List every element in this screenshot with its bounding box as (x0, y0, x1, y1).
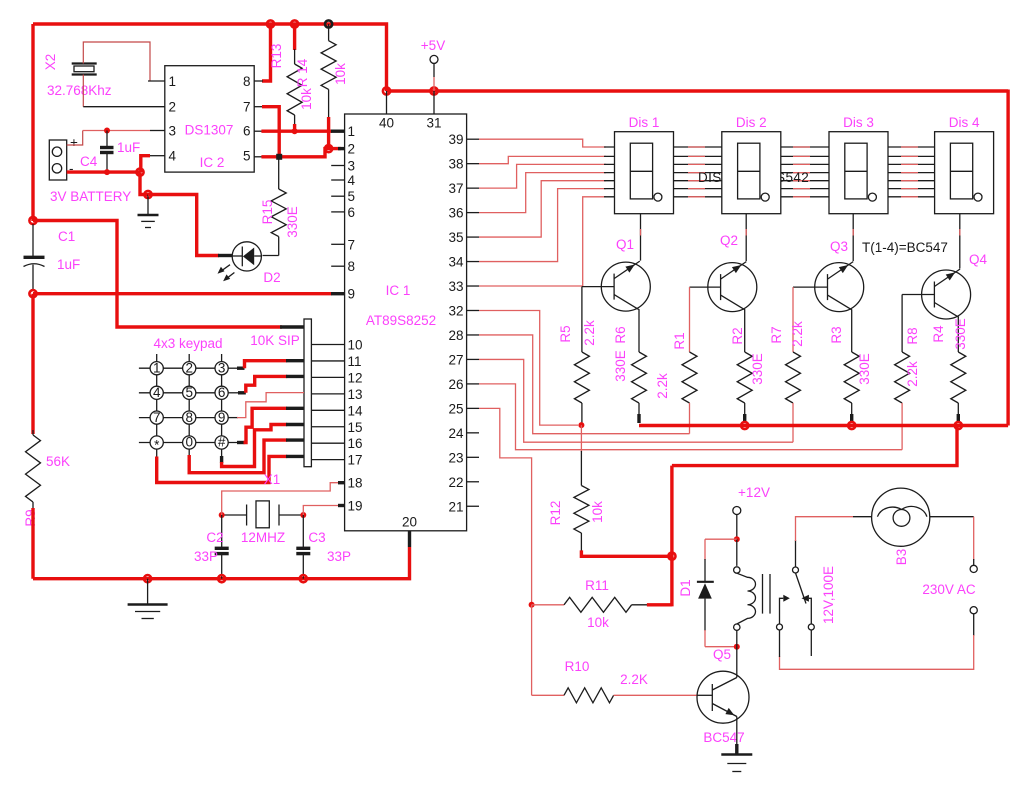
svg-text:3V BATTERY: 3V BATTERY (50, 189, 131, 204)
pin 12 IC1 (311, 376, 344, 378)
svg-text:20: 20 (402, 515, 417, 530)
wire bulb to terminal (930, 516, 974, 518)
wire red segment overlays line 7 (688, 196, 705, 198)
transistor Q4 BC547 (922, 269, 971, 319)
wire pin31 stub (433, 91, 435, 114)
svg-text:R11: R11 (585, 578, 609, 593)
svg-text:5: 5 (243, 149, 251, 164)
svg-text:C4: C4 (80, 154, 98, 169)
keypad key 3 (215, 362, 228, 375)
wire segment bus line 3 (604, 163, 935, 165)
wire DS1307 pin5 to IC1 pin2 (254, 156, 262, 158)
svg-text:17: 17 (348, 453, 363, 468)
wire +5V top rail (33, 24, 387, 91)
svg-text:+5V: +5V (421, 38, 445, 53)
svg-text:19: 19 (348, 499, 363, 514)
svg-text:C1: C1 (58, 229, 75, 244)
svg-text:Q4: Q4 (969, 252, 988, 267)
wire display 4 to Q4 collector (959, 214, 961, 269)
svg-text:7: 7 (153, 410, 161, 425)
pin 38 IC1 (467, 163, 479, 165)
svg-text:28: 28 (448, 328, 463, 343)
wire red segment overlays line 5 (688, 180, 705, 182)
keypad key 5 (183, 386, 196, 399)
svg-text:15: 15 (348, 420, 363, 435)
svg-text:1: 1 (169, 74, 177, 89)
svg-text:5: 5 (348, 189, 356, 204)
node junction R2 bus (741, 422, 748, 429)
svg-text:R12: R12 (548, 501, 563, 526)
svg-text:DS1307: DS1307 (185, 123, 234, 138)
wire IC1 pin35 to segment line 5 (479, 181, 606, 237)
svg-text:Q5: Q5 (713, 647, 731, 662)
svg-text:4x3 keypad: 4x3 keypad (153, 336, 222, 351)
resistor R14 10k (328, 24, 330, 41)
ground Q5 (721, 753, 752, 756)
resistor R10 2.2K (532, 694, 564, 696)
svg-text:X2: X2 (43, 54, 58, 71)
node junction ground (144, 191, 151, 198)
wire X2 bottom to DS1307 pin2 (82, 75, 84, 107)
pin 32 IC1 (467, 309, 479, 311)
keypad key # (215, 436, 228, 449)
wire Q3 base lead (793, 286, 828, 288)
wire keypad col2 to SIP pin16 (188, 449, 190, 456)
wire Q1 base lead (582, 286, 614, 288)
svg-text:Dis 3: Dis 3 (843, 115, 874, 130)
svg-text:1uF: 1uF (117, 140, 140, 155)
svg-text:1: 1 (153, 360, 161, 375)
svg-text:Q2: Q2 (720, 233, 738, 248)
resistor R6 330E (632, 352, 647, 403)
svg-text:8: 8 (348, 259, 356, 274)
node junction C2 top (219, 512, 225, 518)
wire left rail to R9 (31, 294, 34, 434)
wire keypad row1 to SIP pin11 (228, 367, 238, 369)
svg-text:56K: 56K (46, 454, 70, 469)
pin 37 IC1 (467, 187, 479, 189)
wire IC1 pin28 to R1 (479, 335, 690, 434)
svg-text:10k: 10k (333, 63, 348, 85)
pin 11 IC1 (311, 360, 344, 362)
wire segment bus line 7 (604, 196, 935, 198)
wire C3 to IC1 pin19 (303, 506, 341, 516)
wire pin3 net (83, 130, 150, 132)
svg-text:34: 34 (448, 255, 464, 270)
wire R5 bottom to pin32 net (581, 403, 583, 425)
wire left supply rail (31, 24, 34, 221)
terminal +12V (733, 507, 741, 515)
svg-text:10: 10 (348, 338, 363, 353)
svg-text:#: # (218, 435, 226, 450)
wire relay bottom to Q5 (736, 647, 738, 678)
svg-text:13: 13 (348, 387, 363, 402)
wire relay common to bulb (795, 540, 797, 567)
wire X2 top to DS1307 pin1 (83, 42, 150, 81)
pin 35 IC1 (467, 236, 479, 238)
wire display 3 to Q3 collector (852, 214, 854, 261)
svg-text:8: 8 (243, 74, 251, 89)
wire IC1 pin33 to segment line 7 (479, 197, 606, 286)
svg-text:BC547: BC547 (703, 730, 744, 745)
node junction R5/R12 (578, 422, 584, 428)
svg-text:Dis 2: Dis 2 (736, 115, 767, 130)
svg-text:C3: C3 (308, 530, 325, 545)
wire R8 bottom (901, 403, 903, 450)
svg-text:4: 4 (153, 385, 161, 400)
svg-text:18: 18 (348, 476, 363, 491)
svg-text:39: 39 (448, 132, 463, 147)
node junction C2 bus (218, 575, 225, 582)
wire LED feed from ground junction (148, 195, 219, 256)
keypad key 1 (150, 362, 163, 375)
resistor R7 2.2k (792, 287, 794, 352)
node junction left C1 top (29, 217, 36, 224)
LED D2 (232, 242, 261, 271)
svg-text:16: 16 (348, 436, 363, 451)
resistor R8 2.2k (901, 295, 903, 353)
svg-text:1: 1 (348, 124, 356, 139)
svg-text:6: 6 (218, 385, 226, 400)
transistor Q1 BC547 (601, 261, 650, 311)
wire IC1 pin26 to R8 (479, 384, 902, 450)
crystal X1 12MHZ (246, 505, 248, 526)
wire battery plus to pin3 (67, 131, 83, 146)
wire relay net riser (670, 466, 673, 607)
pin 24 IC1 (467, 432, 479, 434)
node junction R13 bottom (292, 128, 298, 134)
wire C2 to IC1 pin18 (222, 483, 341, 515)
svg-text:10K SIP: 10K SIP (250, 333, 300, 348)
transistor Q3 BC547 (815, 262, 864, 312)
wire IC1 pin27 to R7 (479, 359, 793, 442)
keypad key 4 (150, 386, 163, 399)
ground bottom bus (147, 579, 149, 604)
svg-text:3: 3 (169, 124, 177, 139)
svg-text:R4: R4 (931, 325, 946, 343)
svg-text:T(1-4)=BC547: T(1-4)=BC547 (862, 240, 948, 255)
resistor R15 330E (278, 157, 280, 189)
wire Q3 emitter to resistor (851, 310, 853, 352)
svg-text:2: 2 (185, 360, 193, 375)
svg-text:33P: 33P (194, 549, 218, 564)
pin 26 IC1 (467, 383, 479, 385)
wire R7 bottom (792, 403, 794, 442)
wire red segment overlays line 6 (688, 188, 705, 190)
node junction top rail R13 (291, 20, 298, 27)
svg-text:5: 5 (185, 385, 193, 400)
svg-text:10k: 10k (299, 88, 314, 110)
node junction C3 bus (300, 575, 307, 582)
svg-text:R8: R8 (905, 327, 920, 344)
svg-text:11: 11 (348, 354, 362, 369)
transistor Q5 BC547 (697, 671, 749, 723)
svg-text:2.2k: 2.2k (790, 321, 805, 347)
wire keypad col3 to SIP pin15 (221, 449, 223, 457)
node junction pin40 (383, 87, 390, 94)
svg-text:31: 31 (426, 116, 441, 131)
svg-text:40: 40 (379, 116, 394, 131)
wire display 2 to Q2 collector (745, 214, 747, 261)
svg-text:230V AC: 230V AC (922, 582, 976, 597)
wire pin4 to battery net (141, 156, 150, 172)
svg-text:R 14: R 14 (295, 58, 310, 87)
wire R15 to LED (263, 255, 279, 257)
keypad key 2 (183, 362, 196, 375)
svg-text:D2: D2 (263, 270, 280, 285)
wire segment bus line 4 (604, 172, 935, 174)
node junction pin7/pin5/R15 (276, 154, 282, 160)
resistor R1 2.2k (689, 287, 691, 352)
keypad key 8 (183, 411, 196, 424)
pin 5 IC1 (331, 195, 344, 197)
pin 14 IC1 (311, 409, 344, 411)
wire Q1 emitter to resistor (638, 309, 640, 352)
wire IC1 pin25 to R11/R10 (479, 408, 532, 604)
svg-text:D1: D1 (678, 579, 693, 596)
svg-text:4: 4 (348, 173, 356, 188)
wire red segment overlays line 4 (688, 172, 705, 174)
svg-text:C2: C2 (206, 530, 223, 545)
pin 36 IC1 (467, 212, 479, 214)
wire IC1 pin39 to segment line 1 (479, 139, 606, 147)
svg-text:330E: 330E (750, 353, 765, 385)
svg-text:9: 9 (218, 410, 226, 425)
wire bottom ground bus (33, 547, 410, 579)
display Dis 4 seven-segment LTS542 (935, 132, 994, 214)
svg-text:R15: R15 (260, 200, 275, 225)
wire IC1 pin37 to segment line 3 (479, 164, 606, 188)
svg-text:24: 24 (448, 426, 464, 441)
svg-text:8: 8 (185, 410, 193, 425)
wire down to ground junction (140, 172, 148, 194)
wire red segment overlays line 2 (688, 155, 705, 157)
resistor R4 330E (951, 352, 966, 403)
wire R11 to R10 (531, 605, 533, 696)
node junction R4 bus (955, 422, 962, 429)
op-amp U: IC2 DS1307 RTC (165, 66, 254, 172)
node junction pin9 net (29, 290, 36, 297)
svg-text:IC 1: IC 1 (386, 283, 411, 298)
pin 27 IC1 (467, 358, 479, 360)
wire Q2 emitter to resistor (744, 310, 746, 352)
svg-text:6: 6 (243, 124, 251, 139)
pin 28 IC1 (467, 334, 479, 336)
svg-text:26: 26 (448, 377, 463, 392)
node junction top rail pin8 (267, 20, 274, 27)
wire Q2 base lead (690, 286, 721, 288)
svg-text:3: 3 (218, 360, 226, 375)
crystal X2 32.768Khz (72, 62, 97, 64)
svg-text:IC 2: IC 2 (200, 155, 225, 170)
wire pin40 stub (386, 91, 388, 114)
node junction R11 left (529, 602, 535, 608)
svg-text:X1: X1 (264, 472, 281, 487)
node junction D1 top (734, 536, 740, 542)
node junction R14/pin2 (325, 145, 332, 152)
pin 23 IC1 (467, 456, 479, 458)
wire DS1307 pin6 to IC1 pin1 (254, 130, 263, 132)
wire +5V horizontal rail (387, 89, 1009, 92)
resistor R11 10k (532, 604, 564, 606)
wire IC1 pin34 to segment line 6 (479, 189, 606, 262)
wire red segment overlays line 1 (688, 146, 705, 148)
svg-text:Dis 4: Dis 4 (949, 115, 980, 130)
wire keypad row4 to SIP pin14 (228, 442, 244, 444)
keypad key * (150, 436, 163, 449)
resistor network 10K SIP (304, 319, 311, 467)
pin 16 IC1 (311, 442, 344, 444)
svg-text:330E: 330E (857, 353, 872, 385)
resistor R9 56K (32, 430, 34, 435)
wire display 1 to Q1 collector (640, 214, 642, 261)
wire IC1 pin36 to segment line 4 (479, 173, 606, 213)
svg-text:7: 7 (348, 237, 356, 252)
svg-text:R2: R2 (730, 327, 745, 344)
svg-text:2.2K: 2.2K (620, 672, 648, 687)
node junction battery/pin4 (136, 169, 143, 176)
wire red segment overlays line 3 (688, 163, 705, 165)
wire pin9 net (33, 292, 332, 295)
wire R9 to bottom bus (31, 508, 34, 579)
relay switch (793, 567, 799, 573)
capacitor C2 33P (221, 515, 223, 547)
svg-text:10k: 10k (587, 615, 609, 630)
svg-text:3: 3 (348, 159, 356, 174)
pin 10 IC1 (311, 344, 344, 346)
pin 7 IC1 (331, 243, 344, 245)
keypad key 0 (183, 436, 196, 449)
svg-text:R3: R3 (829, 326, 844, 343)
node junction R3 bus (848, 422, 855, 429)
svg-text:6: 6 (348, 205, 356, 220)
wire keypad row3 to SIP pin13 (228, 417, 238, 419)
wire emitter 330E bus (639, 424, 1008, 427)
terminal 230V AC bottom (970, 607, 977, 614)
wire battery minus rail (67, 170, 140, 173)
resistor R13 10k (293, 24, 296, 50)
relay coil 12V,100E (734, 567, 740, 573)
node junction pin31 (430, 87, 437, 94)
svg-text:330E: 330E (953, 318, 968, 350)
wire X1 net right (279, 514, 303, 516)
display Dis 3 seven-segment LTS542 (829, 132, 888, 214)
wire 230V return (973, 614, 975, 636)
svg-text:R7: R7 (769, 326, 784, 343)
resistor R5 2.2k (581, 287, 583, 352)
wire DS1307 pin8 to +5V (262, 24, 271, 81)
wire R1 bottom (689, 403, 691, 434)
pin 6 IC1 (331, 211, 344, 213)
keypad key 6 (215, 386, 228, 399)
svg-text:12MHZ: 12MHZ (241, 530, 285, 545)
display Dis 2 seven-segment LTS542 (722, 132, 781, 214)
svg-text:10k: 10k (590, 501, 605, 523)
svg-text:Dis 1: Dis 1 (629, 115, 660, 130)
wire X1 net left (222, 514, 247, 516)
svg-text:2.2k: 2.2k (905, 361, 920, 387)
svg-text:38: 38 (448, 157, 463, 172)
resistor R3 330E (844, 352, 859, 403)
node junction ground stub (144, 575, 151, 582)
capacitor C1 1uF (32, 224, 34, 256)
pin 25 IC1 (467, 407, 479, 409)
svg-text:22: 22 (448, 475, 463, 490)
wire IC1 pin38 to segment line 2 (479, 156, 606, 163)
pin 8 IC1 (331, 265, 344, 267)
svg-text:21: 21 (448, 499, 463, 514)
svg-text:R13: R13 (269, 44, 284, 69)
svg-text:AT89S8252: AT89S8252 (366, 313, 436, 328)
node C4 bottom junction (104, 169, 110, 175)
wire +V to keypad SIP (33, 221, 282, 328)
svg-text:36: 36 (448, 206, 463, 221)
svg-text:+12V: +12V (738, 485, 770, 500)
wire right border rail (1006, 90, 1009, 426)
wire +12V to relay (736, 515, 738, 540)
wire IC1 pin32 to R5/R12 (479, 310, 578, 425)
resistor R2 330E (737, 352, 752, 403)
svg-text:2: 2 (348, 142, 356, 157)
ground battery net (147, 195, 149, 215)
svg-text:R1: R1 (672, 332, 687, 349)
display Dis 1 seven-segment LTS542 (615, 132, 674, 214)
svg-text:12V,100E: 12V,100E (821, 566, 836, 624)
pin 22 IC1 (467, 481, 479, 483)
svg-text:330E: 330E (285, 206, 300, 238)
keypad key 7 (150, 411, 163, 424)
svg-text:7: 7 (243, 100, 251, 115)
svg-text:32.768Khz: 32.768Khz (47, 83, 112, 98)
svg-text:2: 2 (169, 100, 177, 115)
wire keypad col1 to SIP pin17 (156, 449, 158, 457)
node junction C3 top (300, 512, 306, 518)
svg-text:330E: 330E (613, 350, 628, 382)
terminal 230V AC top (970, 565, 977, 572)
svg-text:Q1: Q1 (616, 237, 634, 252)
diode D1 (705, 538, 737, 540)
svg-text:R6: R6 (613, 326, 628, 343)
svg-text:R9: R9 (23, 509, 38, 526)
svg-text:35: 35 (448, 230, 463, 245)
pin 17 IC1 (311, 459, 344, 461)
node junction Q5 collector (734, 644, 740, 650)
capacitor C4 1uF (106, 131, 108, 147)
keypad key 9 (215, 411, 228, 424)
battery connector 3V (49, 140, 66, 180)
wire relay net to bus (672, 426, 957, 466)
pin 4 IC1 (331, 179, 344, 181)
svg-text:R10: R10 (565, 659, 590, 674)
svg-text:2.2k: 2.2k (655, 373, 670, 399)
svg-text:+: + (70, 135, 78, 150)
wire segment bus line 1 (604, 146, 935, 148)
lamp B3 (853, 516, 872, 518)
svg-text:12: 12 (348, 370, 363, 385)
svg-text:33P: 33P (327, 549, 351, 564)
wire Q4 emitter to resistor (957, 317, 959, 352)
pin 15 IC1 (311, 426, 344, 428)
wire Q5 emitter to ground (736, 717, 738, 746)
transistor Q2 BC547 (708, 262, 757, 312)
svg-text:37: 37 (448, 181, 463, 196)
svg-text:1uF: 1uF (57, 257, 80, 272)
svg-text:2.2k: 2.2k (582, 320, 597, 346)
capacitor C3 33P (302, 515, 304, 547)
pin 34 IC1 (467, 261, 479, 263)
svg-text:23: 23 (448, 450, 463, 465)
pin 39 IC1 (467, 138, 479, 140)
